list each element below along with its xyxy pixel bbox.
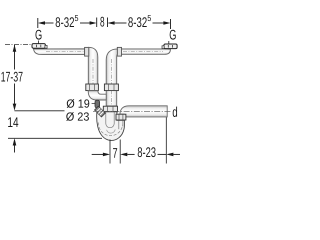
- text: label O23: [66, 112, 89, 121]
- dimension: extension line pipe end x166.3: [165, 117, 167, 163]
- pipe: right horizontal inlet pipe: [118, 49, 171, 54]
- text: label O19: [67, 99, 90, 108]
- text: sup 5 right: [148, 15, 151, 21]
- fitting: right union nut at junction: [104, 84, 118, 91]
- text: label d: [173, 107, 177, 117]
- wire: outlet pipe dash-dot centerline: [93, 110, 171, 112]
- wire: trap bottom reference y138.3: [8, 137, 102, 139]
- text: dim 8-32 left: [56, 17, 74, 27]
- text: dim 8-23: [138, 147, 156, 157]
- text: dim 17-37: [1, 72, 22, 82]
- wire: outlet centerline reference y110.8: [15, 110, 65, 112]
- dimension: extension line trap inlet x110: [109, 140, 111, 164]
- pipe: outlet riser + elbow + horizontal outlet pipe: [120, 106, 167, 117]
- text: sup 5 left: [75, 15, 78, 21]
- node: right G centerline tick: [168, 41, 170, 44]
- text: dim 8 center: [100, 17, 104, 27]
- fitting: left union nut at junction: [86, 84, 99, 91]
- wire: left connection reference line y44.6: [5, 44, 32, 46]
- dimension: vertical 17-37: [14, 45, 16, 104]
- label: Ø 19 leader: [92, 103, 96, 105]
- dimension: top line right 8-32(5): [115, 19, 171, 29]
- text: label G right: [170, 30, 176, 40]
- fitting: trap outlet nut: [116, 114, 126, 120]
- fitting: left collar: [85, 47, 89, 56]
- dimension: extension line trap outlet riser x120: [119, 140, 121, 164]
- pipe: left elbow down + left vertical pipe: [88, 47, 98, 84]
- text: dim 8-32 right: [128, 17, 146, 27]
- pipe: left horizontal inlet pipe: [34, 49, 85, 55]
- fitting: left G nut: [32, 44, 47, 49]
- pipe: connector elbow from left pipe into right pipe: [88, 91, 106, 100]
- node: left G centerline tick: [38, 41, 40, 45]
- dimension: bottom 7: [92, 153, 104, 155]
- fitting: right G nut: [162, 44, 177, 49]
- fitting: trap inlet nut: [103, 106, 117, 112]
- text: dim 7: [113, 148, 117, 158]
- dimension: top center 8: [107, 18, 109, 28]
- pipe: right elbow down + right vertical pipe upper: [106, 49, 117, 106]
- text: dim 14: [8, 117, 18, 127]
- fitting: hose nipple barb (dishwasher connector): [95, 100, 106, 117]
- fitting: right collar: [117, 47, 121, 56]
- dimension: top line left 8-32(5): [38, 18, 97, 29]
- dimension: bottom 8-23: [127, 153, 134, 155]
- text: label G left: [35, 30, 41, 40]
- pipe: trap U-bend cup: [97, 112, 125, 141]
